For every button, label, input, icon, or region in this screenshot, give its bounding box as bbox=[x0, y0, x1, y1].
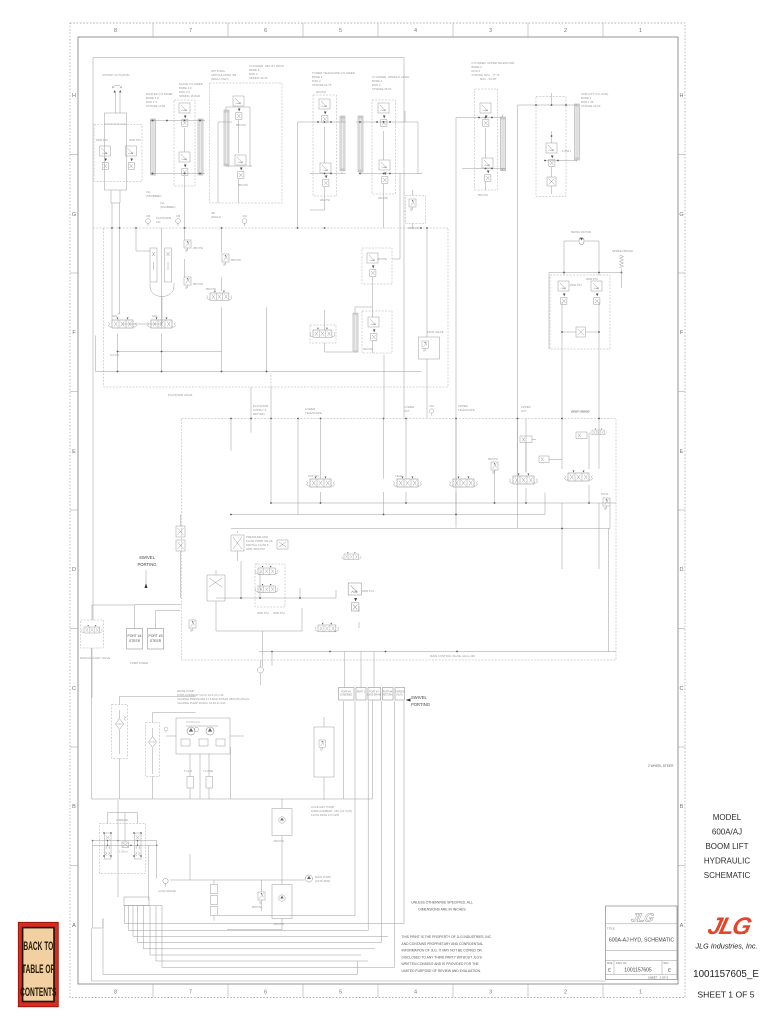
svg-text:TANK VALVE: TANK VALVE bbox=[427, 330, 444, 334]
grid letters left bbox=[72, 93, 76, 929]
title row bbox=[606, 950, 678, 952]
svg-text:SWIVEL: SWIVEL bbox=[411, 695, 427, 700]
steer feed wires bbox=[92, 605, 181, 699]
swing cbv right bbox=[591, 281, 602, 304]
swing brake junction bbox=[621, 272, 623, 274]
port riser wires bbox=[218, 701, 404, 967]
upright lift dashed box bbox=[536, 97, 566, 197]
svg-text:PORT #6: PORT #6 bbox=[341, 692, 351, 694]
svg-text:SWING MOTOR: SWING MOTOR bbox=[571, 230, 592, 234]
svg-text:LIFT DN: LIFT DN bbox=[308, 474, 319, 478]
svg-text:STROKE 36.00: STROKE 36.00 bbox=[372, 87, 392, 91]
main valve bus dashed bbox=[182, 419, 617, 661]
svg-text:LIFT: LIFT bbox=[404, 409, 410, 413]
svg-text:SWIVEL: SWIVEL bbox=[139, 555, 155, 560]
jib area cylinder barrel bbox=[353, 313, 358, 352]
upper telescope dashed box bbox=[475, 89, 498, 190]
lift small box bbox=[547, 177, 556, 186]
jib area cbv lower bbox=[368, 317, 379, 340]
wires master cylinder bbox=[150, 121, 205, 229]
svg-text:LVL: LVL bbox=[156, 220, 161, 224]
svg-text:BOOM LIFT: BOOM LIFT bbox=[705, 842, 748, 851]
svg-text:CM: CM bbox=[429, 404, 434, 408]
svg-text:D: D bbox=[680, 567, 684, 573]
gauge port CM1 bbox=[146, 219, 151, 226]
svg-text:5: 5 bbox=[339, 28, 342, 34]
svg-text:TITLE: TITLE bbox=[607, 927, 615, 931]
svg-text:LOAD SENSE: LOAD SENSE bbox=[158, 889, 176, 893]
jib cbv lower bbox=[235, 155, 246, 178]
vertical valve stack mid bbox=[207, 575, 225, 601]
master cylinder barrel left bbox=[151, 119, 156, 175]
svg-text:1: 1 bbox=[639, 990, 642, 996]
svg-text:BODY SWING: BODY SWING bbox=[572, 409, 590, 413]
lower manifold wires bbox=[96, 308, 422, 372]
svg-text:JLG: JLG bbox=[630, 911, 656, 925]
cooler rect 1 bbox=[187, 777, 194, 789]
svg-text:1-845 x: 1-845 x bbox=[562, 149, 572, 153]
upper lift label bbox=[521, 405, 531, 413]
svg-text:PSI N: PSI N bbox=[601, 492, 608, 496]
svg-text:RETURN: RETURN bbox=[253, 412, 265, 416]
relief right bbox=[603, 498, 610, 510]
spring brake coil bbox=[620, 255, 624, 268]
pressure comp valve bbox=[231, 535, 244, 551]
left risers bbox=[125, 906, 163, 968]
wheel motor center box bbox=[122, 842, 129, 848]
upright cbv lower bbox=[379, 160, 390, 183]
main valve internal hwires bbox=[231, 470, 616, 652]
svg-text:THIS PRINT IS THE PROPERTY OF: THIS PRINT IS THE PROPERTY OF JLG INDUST… bbox=[402, 935, 493, 939]
svg-text:PORTING: PORTING bbox=[411, 702, 430, 707]
bottom bus of main valve bbox=[259, 651, 616, 653]
svg-text:4: 4 bbox=[414, 990, 417, 996]
svg-text:CM: CM bbox=[146, 214, 151, 218]
relief wire bbox=[404, 190, 413, 229]
upright lift cylinder barrel bbox=[575, 104, 580, 160]
JLG red logo bbox=[705, 913, 755, 940]
main pump circle bbox=[305, 875, 312, 882]
svg-text:2500 PSI: 2500 PSI bbox=[129, 138, 141, 142]
svg-text:SOL: SOL bbox=[152, 314, 158, 318]
svg-text:1001157605_E: 1001157605_E bbox=[693, 969, 759, 980]
svg-text:LIFT: LIFT bbox=[521, 409, 527, 413]
gauge small pump bbox=[164, 727, 168, 733]
svg-text:PORT 1: PORT 1 bbox=[357, 692, 366, 694]
tank valve bbox=[419, 337, 440, 359]
filter 1 bbox=[116, 719, 124, 730]
tower wires bbox=[298, 117, 347, 228]
valve labels bbox=[112, 314, 158, 318]
counterbalance valve right (rotator) bbox=[126, 146, 137, 169]
svg-text:B: B bbox=[680, 804, 684, 810]
jlg outline logo bbox=[630, 911, 656, 925]
svg-text:200 PSI: 200 PSI bbox=[320, 198, 330, 202]
optional articulating jib label bbox=[211, 69, 236, 81]
main pump label bbox=[315, 875, 331, 883]
tank return long line bbox=[92, 919, 606, 982]
svg-text:STROKE 61.75: STROKE 61.75 bbox=[312, 83, 332, 87]
svg-text:PORTING: PORTING bbox=[137, 562, 156, 567]
swing cbv left bbox=[558, 281, 569, 304]
upright level cylinder label bbox=[372, 75, 410, 91]
grid numbers bottom bbox=[114, 990, 642, 996]
cbv lower (slave) bbox=[179, 152, 190, 175]
svg-text:850 PSI: 850 PSI bbox=[252, 905, 262, 909]
svg-text:B: B bbox=[72, 804, 76, 810]
svg-text:8: 8 bbox=[114, 990, 117, 996]
svg-text:600A/AJ: 600A/AJ bbox=[712, 828, 742, 837]
wheel motor wires bbox=[93, 813, 157, 846]
cooler rect 2 bbox=[206, 777, 213, 789]
tower telescope label bbox=[312, 71, 355, 87]
bus dashed top bbox=[93, 227, 448, 229]
wheel motor right bbox=[135, 833, 142, 859]
rotator flow divider bars bbox=[150, 248, 157, 282]
svg-text:860 PSI: 860 PSI bbox=[274, 922, 284, 926]
2500 psi comp bbox=[590, 429, 607, 435]
svg-text:MAX - 54.38*: MAX - 54.38* bbox=[480, 77, 498, 81]
junction dots master bbox=[152, 120, 201, 175]
filter 2 bbox=[149, 737, 157, 748]
svg-text:4: 4 bbox=[414, 28, 417, 34]
port labels bbox=[340, 692, 405, 697]
prop valve top bbox=[255, 566, 278, 575]
svg-text:G: G bbox=[72, 212, 76, 218]
svg-text:(AUX): (AUX) bbox=[396, 694, 402, 697]
svg-text:850 PSI: 850 PSI bbox=[238, 183, 248, 187]
pressure comp note bbox=[246, 535, 273, 551]
svg-text:SOL: SOL bbox=[112, 314, 118, 318]
svg-text:850 PSI: 850 PSI bbox=[231, 258, 241, 262]
svg-text:H: H bbox=[72, 93, 76, 99]
small pilot box c bbox=[576, 432, 587, 439]
svg-text:CASE DRAIN: CASE DRAIN bbox=[367, 694, 381, 697]
swivel arrow bbox=[145, 583, 148, 588]
platform relief 850 bbox=[222, 254, 229, 266]
jib select valve cluster bbox=[310, 328, 335, 337]
svg-text:REV: REV bbox=[664, 962, 669, 965]
relief 250psi upper bbox=[184, 240, 191, 252]
svg-text:4500 PSI: 4500 PSI bbox=[273, 611, 285, 615]
upper tele wires bbox=[456, 115, 506, 528]
svg-text:FLOW RATE 4.5 GPM: FLOW RATE 4.5 GPM bbox=[311, 813, 340, 817]
swivel porting label left bbox=[137, 555, 156, 567]
level snubbed label bbox=[146, 190, 175, 209]
svg-text:TELE: TELE bbox=[395, 474, 402, 478]
lift dn labels bbox=[308, 474, 319, 478]
drive pump left bbox=[187, 727, 195, 735]
svg-text:200 PSI: 200 PSI bbox=[316, 90, 326, 94]
lower telescope label bbox=[305, 407, 322, 415]
upright cbv upper bbox=[378, 103, 389, 126]
svg-text:E: E bbox=[608, 968, 611, 973]
cm gauge mid bbox=[429, 409, 433, 416]
aux pump box upper bbox=[272, 809, 292, 836]
wire rotator to bus bbox=[112, 203, 120, 228]
swing motor wires bbox=[564, 241, 599, 273]
size/dwg row bbox=[606, 961, 678, 975]
svg-text:2500 PSI: 2500 PSI bbox=[362, 589, 374, 593]
jib area dashed boxes bbox=[362, 248, 392, 284]
svg-text:JLG Industries, Inc.: JLG Industries, Inc. bbox=[695, 942, 758, 951]
upper telescope valve bbox=[450, 477, 478, 488]
svg-text:2-SPEED: 2-SPEED bbox=[395, 692, 405, 694]
counterbalance valve left (rotator) bbox=[100, 146, 111, 169]
svg-text:A: A bbox=[72, 923, 76, 929]
drive pump enclosure bbox=[176, 718, 230, 754]
svg-text:8: 8 bbox=[114, 28, 117, 34]
svg-text:PORT #4: PORT #4 bbox=[383, 692, 393, 694]
svg-text:TABLE OF: TABLE OF bbox=[22, 963, 55, 977]
upright wires bbox=[356, 111, 422, 228]
svg-text:(2X15.4KW): (2X15.4KW) bbox=[315, 879, 330, 883]
jib 600aj label bbox=[211, 211, 221, 219]
port boxes row bbox=[339, 688, 405, 701]
svg-text:SIZE: SIZE bbox=[607, 962, 613, 965]
svg-text:CM: CM bbox=[176, 214, 181, 218]
two stacked pilot boxes left bbox=[176, 526, 185, 537]
svg-text:RETURN: RETURN bbox=[383, 695, 393, 697]
svg-text:BACK TO: BACK TO bbox=[23, 940, 53, 954]
svg-text:AND CONTAINS PROPRIETARY AND C: AND CONTAINS PROPRIETARY AND CONFIDENTIA… bbox=[402, 942, 484, 946]
svg-text:MODEL: MODEL bbox=[713, 813, 742, 822]
svg-text:CHARGE PUMP 19.8CC 19.84 21.2: CHARGE PUMP 19.8CC 19.84 21.24C bbox=[177, 701, 226, 705]
small comp box bbox=[277, 540, 288, 549]
svg-text:6: 6 bbox=[264, 990, 267, 996]
upper tele cbv upper bbox=[480, 103, 491, 126]
lower telescope valve bbox=[394, 477, 422, 488]
gravity circle bbox=[258, 667, 264, 673]
bypass zigzag f1 bbox=[124, 716, 126, 721]
200 psi label bbox=[316, 90, 330, 202]
proprietary note bbox=[402, 935, 493, 973]
pump small boxes bbox=[181, 739, 190, 746]
svg-text:T-CLR: T-CLR bbox=[184, 769, 192, 773]
platform rotator body bbox=[105, 113, 127, 190]
jib area wires bbox=[251, 173, 400, 419]
relief 850 mid bbox=[491, 462, 498, 474]
port feed verticals bbox=[263, 631, 375, 688]
mid-low cluster a bbox=[342, 552, 362, 559]
svg-text:TELESCOPE: TELESCOPE bbox=[305, 411, 322, 415]
upright lift cbv bbox=[546, 143, 557, 166]
svg-text:SHEET 1 OF 5: SHEET 1 OF 5 bbox=[648, 976, 669, 980]
svg-text:PORT #4: PORT #4 bbox=[127, 634, 141, 638]
svg-text:2500 PSI: 2500 PSI bbox=[96, 138, 108, 142]
jib cylinder barrel bbox=[224, 110, 229, 166]
master cylinder barrel right bbox=[198, 119, 203, 175]
svg-text:E: E bbox=[668, 968, 671, 973]
master/slave valve stack bbox=[174, 100, 195, 186]
long bus lower bbox=[92, 648, 373, 799]
relief left bbox=[189, 620, 196, 632]
filter 1 dashed bbox=[112, 705, 128, 759]
gauge port CM3 bbox=[242, 219, 247, 226]
svg-text:STROKE 10.66: STROKE 10.66 bbox=[146, 104, 166, 108]
jib area cbv right bbox=[367, 253, 378, 276]
row ticks right bbox=[678, 155, 685, 866]
border frame outer dashed bbox=[70, 23, 685, 998]
svg-text:PUMP STEER: PUMP STEER bbox=[130, 661, 148, 665]
svg-text:3: 3 bbox=[489, 28, 492, 34]
swivel arrow right bbox=[406, 699, 411, 702]
charge filter stack bbox=[211, 885, 218, 894]
svg-text:C: C bbox=[72, 686, 76, 692]
svg-text:D: D bbox=[72, 567, 76, 573]
aux feed wires bbox=[227, 747, 282, 930]
platform solenoid valve left bbox=[109, 318, 137, 329]
svg-text:STEER: STEER bbox=[129, 639, 141, 643]
jib dashed enclosure bbox=[210, 83, 283, 203]
svg-text:2: 2 bbox=[564, 990, 567, 996]
svg-text:850 PSI: 850 PSI bbox=[488, 457, 498, 461]
svg-text:GPM 3000 PSI: GPM 3000 PSI bbox=[246, 547, 265, 551]
grid letters right bbox=[679, 93, 683, 929]
NOTES bbox=[402, 764, 675, 973]
main loop wire bbox=[170, 854, 305, 880]
nested L wires bottom-left to right bbox=[125, 924, 405, 968]
upright cylinder barrel bbox=[358, 116, 363, 172]
svg-text:LIMITED PURPOSE OF REVIEW AND: LIMITED PURPOSE OF REVIEW AND EVALUATION… bbox=[402, 969, 481, 973]
platform valve mid cluster bbox=[207, 291, 232, 300]
mid-low wires bbox=[216, 561, 359, 631]
tower telescope dashed box bbox=[313, 95, 337, 196]
t-cooler labels bbox=[184, 769, 213, 773]
port relief box right bbox=[314, 727, 334, 777]
svg-text:200 PSI: 200 PSI bbox=[378, 196, 388, 200]
slave cylinder label bbox=[179, 82, 203, 98]
platform valve dashed enclosure bbox=[104, 228, 449, 387]
small pilot box a bbox=[520, 436, 532, 443]
upright lift cylinder label bbox=[581, 92, 608, 108]
small pilot box b bbox=[539, 456, 549, 463]
svg-text:C: C bbox=[680, 686, 684, 692]
svg-text:H: H bbox=[680, 93, 684, 99]
svg-text:(SNUBBED): (SNUBBED) bbox=[146, 194, 161, 198]
swing cluster wires bbox=[549, 273, 622, 421]
platform lvl label bbox=[156, 216, 172, 224]
platform supply return label bbox=[253, 404, 269, 416]
row ticks left bbox=[70, 155, 78, 866]
svg-text:ROTARY ACTUATOR: ROTARY ACTUATOR bbox=[102, 73, 129, 77]
svg-text:WRITTEN CONSENT AND IS PROVIDE: WRITTEN CONSENT AND IS PROVIDED FOR THE bbox=[402, 962, 480, 966]
upper telescope label bbox=[472, 61, 515, 81]
svg-text:5.2 PSI: 5.2 PSI bbox=[110, 353, 119, 357]
aux pump text bbox=[311, 805, 352, 817]
tower cylinder barrel bbox=[340, 116, 345, 171]
svg-text:(600AJ): (600AJ) bbox=[211, 215, 221, 219]
lift dn valve left bbox=[307, 477, 335, 488]
title block outline bbox=[606, 906, 678, 980]
svg-text:200 PSI: 200 PSI bbox=[377, 257, 387, 261]
column ticks bottom bbox=[153, 984, 603, 998]
svg-text:2: 2 bbox=[564, 28, 567, 34]
svg-text:DISCLOSED TO ANY THIRD PARTY W: DISCLOSED TO ANY THIRD PARTY WITHOUT JLG… bbox=[402, 955, 483, 959]
svg-text:INFORMATION OF JLG. IT MAY NO: INFORMATION OF JLG. IT MAY NOT BE COPIED… bbox=[402, 949, 483, 953]
platform select valve bbox=[315, 623, 339, 632]
svg-text:PLATFORM VALVE: PLATFORM VALVE bbox=[168, 393, 193, 397]
inner drawing border bbox=[93, 58, 404, 621]
wheel motor left bbox=[105, 833, 112, 859]
drive pump text bbox=[177, 689, 249, 705]
svg-text:CM: CM bbox=[242, 214, 247, 218]
swing valve dashed enclosure bbox=[550, 275, 610, 349]
svg-text:7: 7 bbox=[189, 28, 192, 34]
tank valve label bbox=[427, 330, 444, 334]
svg-text:STEER: STEER bbox=[150, 639, 162, 643]
svg-text:STROKE 26.00: STROKE 26.00 bbox=[581, 104, 601, 108]
svg-text:PORT #7: PORT #7 bbox=[369, 692, 379, 694]
manual 2way valve bbox=[81, 620, 104, 648]
svg-text:HYDRAULIC: HYDRAULIC bbox=[704, 857, 750, 866]
svg-text:E: E bbox=[680, 449, 684, 455]
svg-text:G: G bbox=[679, 212, 683, 218]
prop valve bottom bbox=[255, 584, 278, 593]
svg-text:MAIN CONTROL VALVE, ALGL-190: MAIN CONTROL VALVE, ALGL-190 bbox=[430, 654, 475, 658]
svg-text:3: 3 bbox=[489, 990, 492, 996]
svg-text:DIMENSIONS ARE IN INCHES: DIMENSIONS ARE IN INCHES bbox=[418, 908, 466, 912]
svg-text:7: 7 bbox=[189, 990, 192, 996]
svg-text:600A-AJ HYD, SCHEMATIC: 600A-AJ HYD, SCHEMATIC bbox=[609, 938, 675, 944]
load sense circle bbox=[163, 878, 168, 886]
tank valve wires bbox=[426, 228, 428, 418]
back to toc button bbox=[18, 922, 58, 1007]
column ticks top bbox=[70, 23, 685, 998]
svg-text:SPRING 30.25: SPRING 30.25 bbox=[249, 76, 268, 80]
jib cbv upper bbox=[233, 96, 244, 119]
wire actuator down bbox=[116, 93, 121, 113]
svg-text:TELESCOPE: TELESCOPE bbox=[458, 408, 475, 412]
svg-text:5: 5 bbox=[339, 990, 342, 996]
svg-text:250 PSI: 250 PSI bbox=[193, 246, 203, 250]
svg-text:CONTENTS: CONTENTS bbox=[20, 986, 56, 1000]
platform area wires bbox=[112, 228, 222, 328]
svg-text:2500 PSI: 2500 PSI bbox=[586, 277, 598, 281]
upper lift valve bbox=[510, 474, 538, 485]
RIGHT MARGIN bbox=[704, 813, 751, 880]
svg-text:1.00 in: 1.00 in bbox=[119, 850, 128, 854]
grid numbers top bbox=[114, 28, 642, 34]
upper telescope label bbox=[458, 404, 475, 412]
port 4 steer box bbox=[127, 629, 143, 650]
relief valve 3000 psi bbox=[409, 199, 416, 211]
brake shuttle box bottom-left bbox=[124, 897, 149, 906]
svg-text:(SNUBBED): (SNUBBED) bbox=[160, 205, 175, 209]
rotator dashed enclosure bbox=[94, 125, 142, 182]
svg-text:SPRING BRAKE: SPRING BRAKE bbox=[612, 249, 633, 253]
svg-text:A: A bbox=[680, 923, 684, 929]
svg-text:SPRING 15 BAR: SPRING 15 BAR bbox=[179, 94, 200, 98]
upper tele cbv lower bbox=[482, 158, 493, 181]
cbv upper (slave) bbox=[179, 103, 190, 126]
wheel motor dashed box bbox=[100, 824, 146, 874]
jib wires bbox=[218, 107, 252, 203]
svg-text:(600AJ ONLY): (600AJ ONLY) bbox=[211, 77, 229, 81]
swivel porting label right bbox=[411, 695, 430, 707]
port 3 steer box bbox=[148, 629, 164, 650]
svg-text:850 PSI: 850 PSI bbox=[478, 193, 488, 197]
svg-text:200 PSI: 200 PSI bbox=[363, 347, 373, 351]
svg-text:1: 1 bbox=[639, 28, 642, 34]
svg-text:4000 PSI: 4000 PSI bbox=[257, 611, 269, 615]
svg-text:2500 PSI: 2500 PSI bbox=[570, 283, 582, 287]
platform solenoid valve right bbox=[148, 318, 176, 329]
svg-text:1001157605: 1001157605 bbox=[624, 968, 652, 974]
svg-text:T-CASE: T-CASE bbox=[203, 769, 213, 773]
upright level dashed box bbox=[372, 100, 396, 194]
svg-text:850 PSI: 850 PSI bbox=[193, 282, 203, 286]
